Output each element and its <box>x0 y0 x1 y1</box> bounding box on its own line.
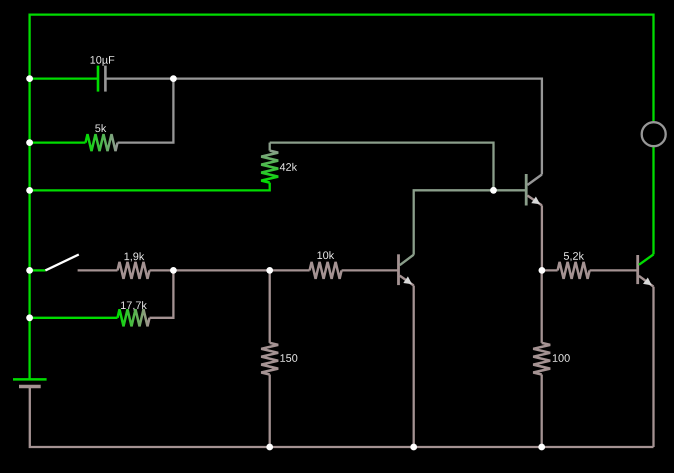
wire Q1 emitter down <box>413 286 415 448</box>
wire battery to bottom rail <box>30 387 654 448</box>
lamp L1 <box>642 122 666 146</box>
label 10k <box>317 251 334 259</box>
resistor 5k <box>86 134 118 151</box>
wire 5,2k from Q2 emitter junction <box>542 269 558 271</box>
wire Q2 emitter down <box>541 205 543 270</box>
label 5,2k <box>564 252 584 261</box>
wire 17,7k feed <box>30 317 118 319</box>
capacitor 10uF <box>97 66 100 92</box>
battery V1 <box>13 378 47 381</box>
wire junction to 10k <box>270 269 310 271</box>
wire 17,7k up to junction <box>150 270 174 317</box>
wire 5,2k to Q3 base <box>590 269 638 271</box>
wire 1,9k to junction <box>150 269 270 271</box>
resistor 100 <box>541 270 543 343</box>
junction left rail / 42k row <box>26 187 33 194</box>
wire Q1 collector to junction <box>414 190 494 254</box>
wire 5k feed <box>30 141 86 143</box>
junction bottom rail / 100 <box>538 444 545 451</box>
wire 10k to Q1 base <box>342 269 399 271</box>
label 150 <box>280 354 297 362</box>
transistor Q1 <box>397 254 400 285</box>
resistor 1,9k <box>118 262 150 279</box>
junction Q2 base node <box>490 187 497 194</box>
wire cap feed <box>30 77 98 79</box>
wire right rail below lamp <box>652 146 654 254</box>
junction bottom rail / Q1 emitter <box>410 444 417 451</box>
transistor Q2 <box>525 174 528 206</box>
wire top rail <box>30 15 654 380</box>
wire 5k to junction up <box>118 79 174 143</box>
label 100 <box>553 354 570 362</box>
junction Q2 emitter / 5,2k / 100 <box>539 267 546 274</box>
switch S1 <box>30 269 46 271</box>
junction left rail / 17,7k <box>26 314 33 321</box>
junction left rail / switch <box>26 267 33 274</box>
resistor 42k <box>269 143 271 151</box>
wire 42k bottom row <box>30 183 270 191</box>
wire Q3 emitter down right rail <box>652 287 654 447</box>
wire cap to junction <box>105 77 173 79</box>
junction left rail / 5k <box>26 139 33 146</box>
junction bottom rail / 150 <box>266 444 273 451</box>
label 1,9k <box>125 252 145 261</box>
resistor 17,7k <box>118 309 150 326</box>
junction left rail / capacitor <box>26 75 33 82</box>
resistor 10k <box>310 262 342 279</box>
wire long top gray to Q2 collector <box>173 79 542 175</box>
junction 1,9k / 17,7k <box>170 267 177 274</box>
label 5k <box>95 124 106 132</box>
resistor 150 <box>269 270 271 343</box>
junction 10k / 150 <box>266 267 273 274</box>
label 42k <box>280 163 297 171</box>
label 17,7k <box>121 301 147 310</box>
resistor 5,2k <box>558 262 590 279</box>
junction capacitor / 5k / top feed <box>170 75 177 82</box>
wire Q2 base <box>494 189 527 191</box>
wire 42k top to Q2 base junction <box>270 143 494 191</box>
transistor Q3 <box>636 255 639 284</box>
label 10µF <box>91 56 115 66</box>
